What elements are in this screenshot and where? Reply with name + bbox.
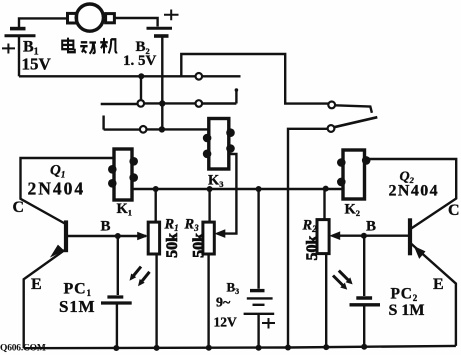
- B3 plate4 long: [244, 313, 275, 315]
- coil K3 turn right2: [226, 144, 235, 153]
- svg-text:K1: K1: [117, 201, 133, 218]
- PC1 plate top: [107, 295, 123, 298]
- Q1 emitter arrow: [50, 244, 65, 260]
- wire Q1 collector to K1: [21, 158, 116, 224]
- coil K3 turn right1: [226, 128, 235, 137]
- node bus-R2: [323, 186, 329, 192]
- coil K1 turn left2: [108, 179, 117, 188]
- svg-text:S1M: S1M: [59, 297, 95, 316]
- label motor 电动机 (drawn strokes): [62, 38, 117, 54]
- PC1 light arrow 1: [132, 267, 141, 278]
- motor brush right: [106, 14, 115, 23]
- Q2 emitter arrow: [414, 246, 426, 259]
- node bus-R2 bottom: [323, 344, 329, 350]
- node bus-R1 bottom: [154, 345, 160, 351]
- PC2 light arrow 2 head: [340, 283, 347, 290]
- B3 plate3 short: [253, 304, 265, 306]
- node row2-B2 junction: [159, 100, 165, 106]
- PC1 light arrow 2 head: [138, 279, 145, 286]
- svg-text:R3: R3: [184, 217, 200, 234]
- svg-text:B: B: [366, 219, 376, 235]
- R2 wiper arrow: [329, 231, 340, 240]
- coil K1 turn left1: [108, 165, 117, 174]
- switch lever bottom: [334, 117, 377, 127]
- coil K2 core: [343, 150, 365, 199]
- coil K2 turn left2: [337, 178, 346, 187]
- wire row1 drop to contact: [140, 76, 142, 100]
- row2 stub tip: [235, 88, 239, 92]
- node bus-R1: [153, 186, 159, 192]
- R1 wiper arrow: [137, 232, 148, 241]
- svg-text:9~: 9~: [216, 296, 231, 311]
- coil K1 core: [114, 149, 132, 200]
- transistor Q1 base bar: [64, 220, 68, 252]
- wire contact row2: [101, 91, 237, 104]
- wire Q2 emitter: [411, 243, 456, 346]
- PC1 plate bottom: [101, 301, 132, 304]
- wire motor-left to B1: [19, 18, 68, 27]
- node Q1 base PC1 junction: [115, 233, 121, 239]
- wire contact row1: [19, 75, 241, 77]
- node bus-B3: [256, 186, 262, 192]
- battery B1 plate long: [5, 34, 36, 37]
- coil K2 turn left1: [337, 158, 346, 167]
- R3 bottom leg: [207, 254, 209, 348]
- battery B2 plate long: [147, 27, 173, 30]
- coil K3 turn left1: [203, 134, 212, 143]
- coil K1 turn right2: [129, 173, 138, 182]
- B3 plus: [262, 318, 275, 329]
- wire K3 to R3 wiper riser: [225, 154, 236, 234]
- B3 lead bottom: [257, 314, 259, 348]
- PC2 light arrow 1 head: [346, 277, 353, 284]
- contact circle row3: [140, 126, 147, 133]
- wire riser row1 to switch top: [181, 54, 328, 104]
- char 电: [62, 38, 75, 53]
- PC2 light arrow 1: [339, 271, 350, 282]
- wire B1 down: [18, 36, 20, 77]
- svg-text:PC2: PC2: [391, 285, 419, 303]
- R1 top leg: [154, 189, 156, 222]
- wire K2 to Q2 collector: [365, 159, 457, 229]
- wire B2 down: [161, 36, 163, 129]
- node row3-B2 junction: [159, 126, 165, 132]
- svg-text:Q606.COM: Q606.COM: [0, 344, 46, 354]
- B3 plate1 short: [250, 289, 265, 292]
- svg-text:E: E: [31, 276, 42, 293]
- PC1 lead bottom: [116, 303, 118, 348]
- switch contact bottom: [328, 125, 335, 132]
- node bus-switch riser: [285, 345, 291, 351]
- PC2 light arrow 2: [333, 276, 344, 287]
- svg-text:50k: 50k: [190, 233, 207, 258]
- PC2 plate top: [356, 296, 372, 299]
- svg-text:R1: R1: [164, 217, 179, 234]
- char 动: [80, 42, 96, 54]
- transistor Q2 base bar: [408, 218, 412, 255]
- node row1-K1a junction: [138, 73, 144, 79]
- svg-text:50k: 50k: [164, 233, 181, 258]
- svg-text:K2: K2: [345, 202, 361, 219]
- svg-text:B3: B3: [227, 280, 240, 297]
- B1 plus sign: [2, 44, 15, 54]
- wire contact row3: [104, 116, 209, 130]
- PC2 plate bottom: [350, 303, 381, 306]
- node Q2 base PC2 junction: [361, 233, 367, 239]
- pot R1 box: [148, 222, 159, 254]
- wire Q1 emitter: [24, 250, 65, 348]
- svg-text:12V: 12V: [214, 315, 238, 330]
- contact circle row2: [196, 100, 203, 107]
- svg-text:C: C: [448, 202, 460, 219]
- svg-text:2N404: 2N404: [28, 179, 86, 199]
- svg-text:S 1M: S 1M: [389, 302, 425, 319]
- motor M: [76, 4, 103, 31]
- R2 bottom leg: [325, 254, 327, 348]
- char 机: [100, 38, 117, 53]
- node bus-R3: [207, 186, 213, 192]
- node bus-B3 bottom: [256, 345, 262, 351]
- svg-text:B: B: [101, 219, 111, 235]
- R3 top leg: [208, 189, 210, 222]
- wire motor-right to B2: [114, 18, 157, 27]
- battery B1 plate short: [10, 27, 26, 31]
- svg-text:1. 5V: 1. 5V: [123, 53, 157, 69]
- svg-text:PC1: PC1: [64, 281, 92, 299]
- svg-text:2N404: 2N404: [389, 183, 440, 200]
- photocell PC1 lead: [117, 236, 119, 295]
- PC1 light arrow 1 head: [130, 274, 137, 281]
- PC2 lead bottom: [363, 305, 365, 347]
- battery B3 lead top: [257, 189, 259, 289]
- photocell PC2 lead: [363, 236, 365, 296]
- pot R3 box: [203, 222, 214, 254]
- R2 top leg: [323, 189, 325, 220]
- switch contact top: [328, 102, 335, 109]
- wire Q1 base: [68, 235, 146, 237]
- motor brush left: [68, 13, 77, 23]
- wire bottom bus: [24, 346, 456, 348]
- node bus-R3 bottom: [206, 345, 212, 351]
- svg-text:R2: R2: [302, 218, 318, 235]
- battery B2 plate short: [154, 34, 169, 38]
- switch lever top: [335, 105, 372, 113]
- coil K3 turn left2: [203, 150, 212, 159]
- coil K3 core: [209, 119, 229, 170]
- svg-text:E: E: [433, 276, 444, 293]
- svg-text:C: C: [13, 199, 25, 216]
- R3 wiper arrow: [214, 229, 225, 238]
- wire Q2 base: [340, 234, 408, 236]
- svg-text:15V: 15V: [22, 54, 52, 73]
- contact circle row1: [196, 73, 203, 80]
- B2 plus sign: [164, 10, 179, 21]
- svg-text:50k: 50k: [304, 235, 321, 260]
- B3 plate2 long: [247, 297, 273, 299]
- coil K2 turn right1: [362, 156, 371, 165]
- svg-text:Q1: Q1: [50, 163, 65, 180]
- pot R2 box: [317, 220, 329, 254]
- wire main bus: [132, 188, 343, 190]
- contact circle K1a: [138, 100, 145, 107]
- R1 bottom leg: [155, 254, 157, 348]
- wire riser bottom-bus to switch bottom: [288, 129, 328, 348]
- node bus-PC1: [113, 345, 119, 351]
- PC1 light arrow 2: [141, 272, 150, 283]
- node bus-PC2 bottom: [361, 344, 367, 350]
- coil K1 turn right1: [129, 157, 138, 166]
